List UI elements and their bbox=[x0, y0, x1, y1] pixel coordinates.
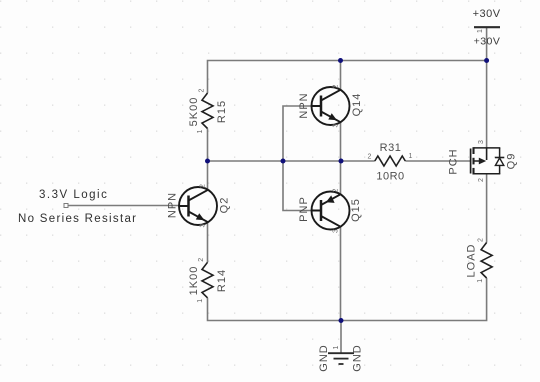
wire Q2 emitter to R14 bbox=[207, 222, 209, 262]
svg-text:GND: GND bbox=[352, 344, 364, 371]
wire base column Q14 base to Q15 base bbox=[283, 106, 312, 211]
svg-text:10R0: 10R0 bbox=[376, 171, 404, 183]
wire Q15 emitter to bottom rail bbox=[340, 227, 342, 321]
junction at GND bottom rail bbox=[339, 318, 344, 323]
svg-text:2: 2 bbox=[200, 184, 207, 188]
wire power drop bbox=[486, 27, 488, 60]
svg-text:1: 1 bbox=[333, 345, 340, 349]
wire input 3.3V logic to Q2 base bbox=[68, 205, 179, 207]
svg-text:2: 2 bbox=[478, 238, 485, 242]
svg-text:2: 2 bbox=[333, 84, 340, 88]
wire Q14 collector bbox=[340, 61, 342, 90]
svg-text:1: 1 bbox=[409, 153, 413, 160]
junction at base column mid rail bbox=[281, 159, 286, 164]
svg-text:+30V: +30V bbox=[474, 36, 501, 48]
wire R31 left bbox=[341, 160, 375, 162]
svg-text:3: 3 bbox=[478, 140, 485, 144]
svg-text:PCH: PCH bbox=[448, 148, 460, 174]
svg-text:R15: R15 bbox=[216, 100, 228, 123]
wire mid rail bbox=[208, 160, 342, 162]
resistor LOAD body bbox=[481, 243, 492, 279]
svg-text:5K00: 5K00 bbox=[188, 97, 200, 127]
svg-text:1: 1 bbox=[477, 279, 484, 283]
junction at Q14 collector on top rail bbox=[338, 58, 343, 63]
svg-text:1: 1 bbox=[477, 29, 484, 33]
wire Q14 emitter bbox=[340, 122, 342, 161]
svg-text:2: 2 bbox=[368, 154, 372, 161]
svg-text:+30V: +30V bbox=[473, 8, 501, 20]
resistor R14 body bbox=[202, 262, 213, 298]
svg-text:2: 2 bbox=[333, 188, 340, 192]
wire R31 right to Q9 gate bbox=[405, 160, 470, 162]
Q9 body diode bbox=[495, 148, 504, 174]
svg-text:PNP: PNP bbox=[298, 196, 310, 222]
svg-text:2: 2 bbox=[199, 88, 206, 92]
svg-text:3: 3 bbox=[333, 229, 340, 233]
wire R14 bottom and bottom rail left bbox=[208, 298, 342, 321]
svg-text:Q9: Q9 bbox=[506, 153, 518, 170]
svg-text:NPN: NPN bbox=[298, 92, 310, 118]
transistor Q15 PNP bbox=[312, 192, 350, 230]
resistor R31 body bbox=[375, 156, 406, 166]
wire Q15 collector bbox=[340, 161, 342, 194]
wire Q2 collector bbox=[207, 161, 209, 190]
input port square bbox=[64, 204, 68, 208]
svg-text:2: 2 bbox=[478, 178, 485, 182]
svg-text:1: 1 bbox=[197, 299, 204, 303]
svg-text:LOAD: LOAD bbox=[466, 244, 478, 278]
svg-text:3.3V Logic: 3.3V Logic bbox=[39, 189, 108, 201]
junction at +30V on top rail bbox=[484, 58, 489, 63]
wire Q9 source to LOAD bbox=[486, 174, 488, 243]
resistor R15 body bbox=[202, 93, 213, 129]
power +30V symbol bar bbox=[474, 26, 500, 28]
svg-text:3: 3 bbox=[200, 223, 207, 227]
transistor Q14 NPN bbox=[312, 87, 350, 125]
junction at R15 bottom mid rail bbox=[205, 159, 210, 164]
svg-text:R31: R31 bbox=[380, 142, 402, 154]
svg-text:NPN: NPN bbox=[167, 192, 179, 218]
svg-text:Q2: Q2 bbox=[219, 197, 231, 214]
svg-text:1K00: 1K00 bbox=[188, 266, 200, 296]
wire GND drop bbox=[340, 321, 342, 354]
mosfet Q9 PCH bbox=[471, 147, 501, 174]
svg-text:2: 2 bbox=[198, 258, 205, 262]
wire Q9 drain drop bbox=[486, 61, 488, 149]
ground symbol bbox=[328, 353, 354, 364]
svg-text:Q15: Q15 bbox=[350, 198, 362, 222]
svg-text:1: 1 bbox=[197, 129, 204, 133]
wire bottom rail right and LOAD bottom bbox=[341, 278, 487, 321]
transistor Q2 NPN bbox=[179, 187, 217, 225]
svg-text:3: 3 bbox=[333, 123, 340, 127]
svg-text:R14: R14 bbox=[216, 269, 228, 292]
svg-text:Q14: Q14 bbox=[351, 93, 363, 117]
svg-text:GND: GND bbox=[318, 344, 330, 371]
wire R15 bottom to mid junction bbox=[207, 129, 209, 162]
junction at Q14 emitter mid rail bbox=[339, 159, 344, 164]
wire top rail from R15 top to +30V column bbox=[208, 61, 487, 94]
svg-text:No Series Resistar: No Series Resistar bbox=[18, 213, 137, 225]
